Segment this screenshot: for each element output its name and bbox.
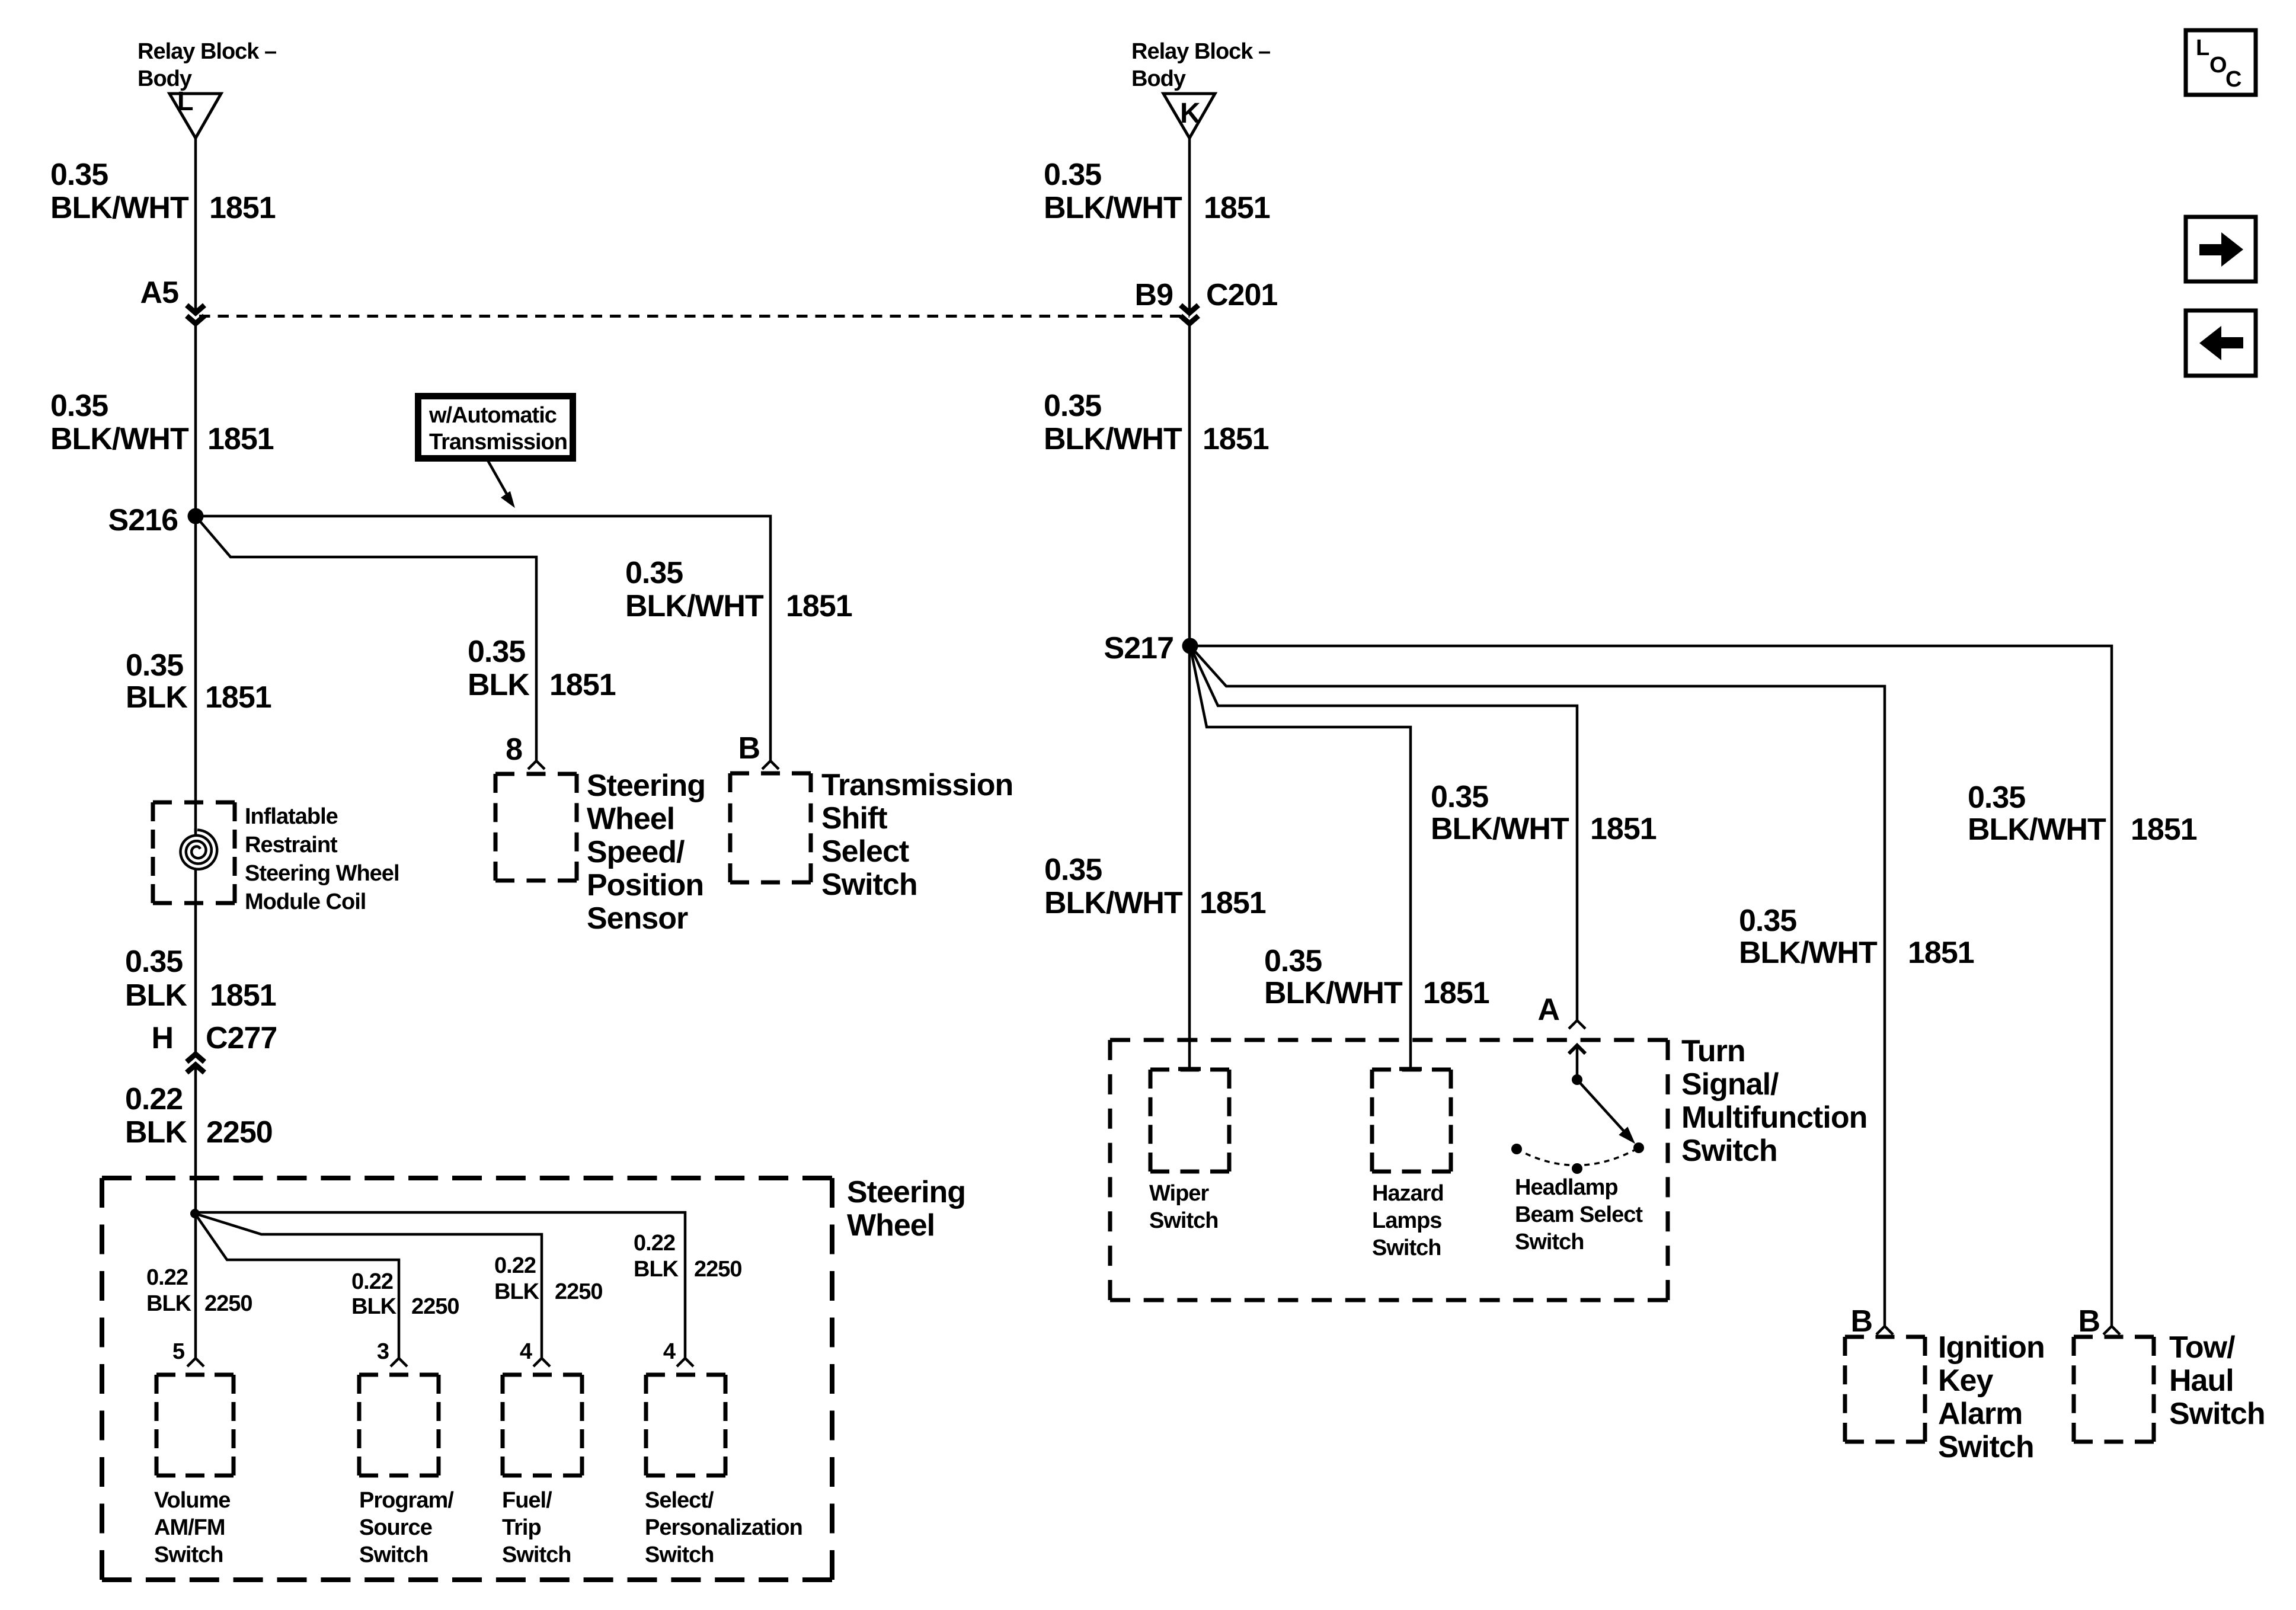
svg-text:BLK: BLK (146, 1291, 192, 1316)
svg-text:BLK/WHT: BLK/WHT (50, 422, 189, 456)
svg-text:Fuel/: Fuel/ (502, 1488, 552, 1513)
svg-text:1851: 1851 (2131, 812, 2197, 847)
svg-text:BLK/WHT: BLK/WHT (1264, 976, 1403, 1010)
svg-text:BLK/WHT: BLK/WHT (625, 589, 764, 623)
svg-text:1851: 1851 (209, 191, 276, 225)
svg-text:Key: Key (1938, 1363, 1993, 1398)
svg-text:AM/FM: AM/FM (154, 1515, 225, 1540)
svg-text:Shift: Shift (821, 801, 887, 836)
svg-text:Wheel: Wheel (847, 1208, 935, 1243)
svg-text:C: C (2225, 67, 2241, 92)
svg-text:Headlamp: Headlamp (1515, 1175, 1618, 1200)
svg-text:0.35: 0.35 (126, 648, 183, 683)
svg-text:Position: Position (587, 868, 703, 902)
svg-text:B: B (1850, 1304, 1872, 1339)
svg-text:0.35: 0.35 (1044, 853, 1102, 887)
svg-text:B9: B9 (1135, 278, 1173, 312)
svg-text:0.35: 0.35 (625, 556, 683, 590)
svg-text:Inflatable: Inflatable (245, 804, 338, 829)
svg-text:Beam Select: Beam Select (1515, 1202, 1643, 1227)
svg-text:Source: Source (359, 1515, 432, 1540)
svg-text:0.22: 0.22 (494, 1253, 536, 1278)
svg-text:1851: 1851 (1203, 422, 1269, 456)
svg-text:2250: 2250 (204, 1291, 252, 1316)
svg-text:Module Coil: Module Coil (245, 889, 366, 914)
svg-text:Wiper: Wiper (1149, 1181, 1209, 1206)
svg-text:BLK/WHT: BLK/WHT (1968, 812, 2106, 847)
svg-text:2250: 2250 (555, 1279, 603, 1304)
svg-text:Steering: Steering (587, 769, 705, 803)
svg-text:4: 4 (520, 1339, 532, 1364)
svg-text:A: A (1537, 993, 1559, 1027)
svg-text:Hazard: Hazard (1372, 1181, 1444, 1206)
svg-text:Switch: Switch (1681, 1134, 1777, 1168)
svg-text:Steering: Steering (847, 1175, 965, 1209)
svg-text:0.35: 0.35 (1968, 780, 2025, 815)
svg-text:Transmission: Transmission (429, 430, 567, 454)
svg-text:BLK/WHT: BLK/WHT (1044, 191, 1182, 225)
svg-text:0.22: 0.22 (125, 1082, 183, 1116)
svg-text:Switch: Switch (2169, 1397, 2265, 1431)
svg-text:BLK/WHT: BLK/WHT (1739, 936, 1878, 970)
svg-text:B: B (2078, 1304, 2100, 1339)
svg-text:Body: Body (137, 66, 192, 91)
svg-text:Speed/: Speed/ (587, 835, 685, 869)
svg-text:0.35: 0.35 (468, 635, 525, 669)
svg-text:1851: 1851 (210, 978, 276, 1013)
svg-text:Trip: Trip (502, 1515, 541, 1540)
svg-text:1851: 1851 (205, 680, 271, 715)
svg-text:Switch: Switch (1938, 1430, 2034, 1464)
svg-text:Switch: Switch (821, 868, 917, 902)
svg-text:1851: 1851 (786, 589, 852, 623)
svg-text:0.35: 0.35 (1044, 158, 1101, 192)
svg-text:BLK/WHT: BLK/WHT (1044, 886, 1183, 920)
svg-text:Haul: Haul (2169, 1363, 2234, 1398)
svg-text:1851: 1851 (1590, 812, 1657, 846)
svg-text:8: 8 (506, 732, 522, 767)
svg-text:4: 4 (663, 1339, 676, 1364)
svg-text:1851: 1851 (1200, 886, 1266, 920)
svg-text:w/Automatic: w/Automatic (428, 403, 557, 428)
svg-text:BLK/WHT: BLK/WHT (50, 191, 189, 225)
svg-text:Sensor: Sensor (587, 901, 688, 936)
svg-text:Relay Block –: Relay Block – (1131, 39, 1270, 64)
svg-text:BLK: BLK (126, 680, 188, 715)
svg-text:0.22: 0.22 (351, 1269, 393, 1294)
svg-text:Switch: Switch (1149, 1208, 1218, 1233)
svg-text:0.35: 0.35 (1264, 944, 1322, 978)
svg-text:BLK: BLK (125, 1115, 187, 1150)
svg-text:Steering Wheel: Steering Wheel (245, 861, 399, 886)
svg-text:C277: C277 (206, 1021, 277, 1055)
svg-text:3: 3 (377, 1339, 389, 1364)
svg-text:Alarm: Alarm (1938, 1397, 2022, 1431)
svg-text:BLK/WHT: BLK/WHT (1431, 812, 1569, 846)
svg-text:Restraint: Restraint (245, 833, 338, 857)
svg-text:BLK: BLK (351, 1294, 397, 1319)
svg-text:0.35: 0.35 (1739, 904, 1796, 938)
svg-text:Volume: Volume (154, 1488, 230, 1513)
svg-text:2250: 2250 (694, 1257, 742, 1282)
svg-text:BLK: BLK (494, 1279, 540, 1304)
svg-text:S217: S217 (1104, 631, 1173, 665)
svg-text:O: O (2209, 53, 2227, 78)
svg-text:0.35: 0.35 (50, 389, 108, 423)
svg-text:Relay Block –: Relay Block – (137, 39, 276, 64)
svg-text:Signal/: Signal/ (1681, 1067, 1779, 1102)
svg-text:Multifunction: Multifunction (1681, 1100, 1867, 1135)
svg-text:Turn: Turn (1681, 1034, 1745, 1068)
svg-text:BLK: BLK (125, 978, 187, 1013)
svg-text:Select/: Select/ (645, 1488, 714, 1513)
svg-text:K: K (1180, 98, 1201, 129)
svg-text:Ignition: Ignition (1938, 1330, 2045, 1365)
svg-text:Select: Select (821, 834, 909, 869)
svg-text:0.35: 0.35 (50, 158, 108, 192)
svg-text:Transmission: Transmission (821, 768, 1013, 802)
svg-text:Switch: Switch (502, 1542, 571, 1567)
svg-text:Switch: Switch (1372, 1235, 1441, 1260)
svg-text:Lamps: Lamps (1372, 1208, 1441, 1233)
svg-text:1851: 1851 (207, 422, 274, 456)
svg-text:2250: 2250 (206, 1115, 273, 1150)
svg-text:1851: 1851 (1423, 976, 1489, 1010)
svg-text:Personalization: Personalization (645, 1515, 802, 1540)
svg-text:Wheel: Wheel (587, 802, 674, 836)
svg-text:0.35: 0.35 (1431, 780, 1488, 814)
svg-text:S216: S216 (108, 503, 178, 537)
svg-text:2250: 2250 (411, 1294, 459, 1319)
svg-text:1851: 1851 (1908, 936, 1974, 970)
svg-text:H: H (151, 1021, 173, 1055)
svg-text:Program/: Program/ (359, 1488, 454, 1513)
svg-text:0.35: 0.35 (1044, 389, 1101, 423)
svg-text:C201: C201 (1206, 278, 1277, 312)
svg-text:BLK: BLK (468, 668, 530, 702)
svg-text:Tow/: Tow/ (2169, 1330, 2235, 1365)
svg-text:B: B (738, 731, 760, 766)
svg-text:0.22: 0.22 (146, 1265, 188, 1290)
svg-text:5: 5 (172, 1339, 185, 1364)
svg-text:0.35: 0.35 (125, 945, 183, 979)
svg-text:A5: A5 (140, 276, 179, 310)
svg-text:0.22: 0.22 (634, 1231, 675, 1256)
svg-text:Body: Body (1131, 66, 1186, 91)
svg-text:Switch: Switch (1515, 1230, 1584, 1254)
svg-text:1851: 1851 (549, 668, 616, 702)
svg-text:Switch: Switch (359, 1542, 428, 1567)
svg-text:Switch: Switch (645, 1542, 714, 1567)
svg-text:BLK: BLK (634, 1257, 679, 1282)
svg-text:BLK/WHT: BLK/WHT (1044, 422, 1182, 456)
svg-text:1851: 1851 (1204, 191, 1270, 225)
svg-text:Switch: Switch (154, 1542, 223, 1567)
svg-text:L: L (2196, 36, 2209, 60)
